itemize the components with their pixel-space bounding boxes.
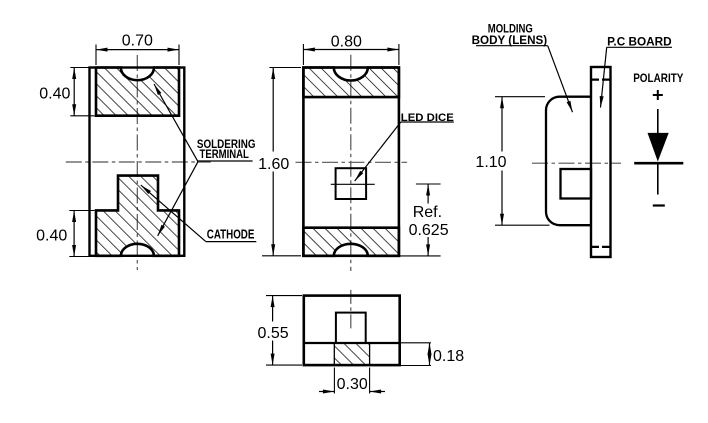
- leader to dice: [355, 122, 401, 181]
- svg-text:POLARITY: POLARITY: [633, 71, 683, 85]
- svg-text:BODY (LENS): BODY (LENS): [472, 33, 548, 47]
- plus sign: [653, 94, 663, 96]
- leader to top terminal: [154, 84, 198, 162]
- svg-text:0.40: 0.40: [36, 227, 67, 244]
- dimension 0.40 (top-left): [70, 67, 88, 69]
- dimension 0.80: [302, 44, 304, 65]
- dice center tick: [331, 183, 375, 185]
- board dashed line top: [592, 78, 611, 80]
- molding body (lens) outline: [546, 97, 591, 226]
- svg-text:0.55: 0.55: [258, 325, 289, 342]
- dimension 1.60: [269, 67, 301, 69]
- svg-text:CATHODE: CATHODE: [207, 227, 255, 241]
- svg-text:0.625: 0.625: [409, 222, 449, 239]
- top terminal band (hatched): [303, 68, 399, 98]
- dimension 0.40 (bottom-left): [69, 210, 94, 212]
- centerline vertical middle view: [350, 55, 352, 271]
- centerline vertical bottom view: [350, 290, 352, 330]
- leader to bottom terminal: [158, 162, 198, 236]
- lens dome square: [336, 313, 366, 343]
- anode wire: [657, 109, 659, 133]
- centerline vertical left view: [136, 55, 138, 270]
- svg-text:0.70: 0.70: [122, 32, 153, 49]
- svg-text:P.C BOARD: P.C BOARD: [607, 34, 672, 48]
- centerline horizontal left view: [66, 161, 211, 163]
- hatched terminal pad square: [334, 343, 369, 365]
- cathode wire: [657, 163, 659, 194]
- inner emitting window rectangle: [561, 169, 592, 199]
- leader to board: [601, 47, 607, 107]
- dimension Ref. 0.625: [416, 183, 441, 185]
- cathode bar: [634, 162, 683, 165]
- svg-text:1.10: 1.10: [475, 154, 506, 171]
- svg-text:0.80: 0.80: [331, 34, 362, 51]
- soldering terminal (cathode, hatched, bottom with index notch): [96, 176, 179, 256]
- dimension 0.70 (top of left view): [95, 45, 97, 66]
- bottom view body rectangle: [304, 296, 400, 366]
- dimension 0.55: [266, 295, 302, 297]
- centerline horizontal right view: [532, 162, 621, 164]
- svg-text:0.18: 0.18: [433, 348, 464, 365]
- seating plane line: [304, 342, 400, 344]
- svg-text:0.40: 0.40: [39, 86, 70, 103]
- minus sign: [653, 204, 665, 206]
- P.C. board rectangle: [591, 67, 611, 257]
- svg-text:1.60: 1.60: [258, 156, 289, 173]
- svg-text:Ref.: Ref.: [413, 204, 442, 221]
- board dashed line bottom: [592, 246, 611, 248]
- centerline horizontal middle view: [296, 161, 408, 163]
- diode triangle: [648, 133, 669, 162]
- leader to molding body: [548, 46, 573, 113]
- middle view body rectangle: [303, 68, 399, 256]
- dimension 1.10: [495, 96, 545, 98]
- leader to cathode notch: [141, 185, 206, 242]
- LED dice square: [336, 168, 367, 199]
- svg-text:0.30: 0.30: [337, 376, 368, 393]
- dimension 0.30: [333, 368, 335, 394]
- left view outer body rectangle: [90, 68, 185, 256]
- dimension 0.18: [400, 342, 431, 344]
- svg-text:TERMINAL: TERMINAL: [200, 149, 249, 161]
- bottom terminal band (hatched): [303, 228, 399, 256]
- soldering terminal (anode, hatched, top): [96, 68, 179, 116]
